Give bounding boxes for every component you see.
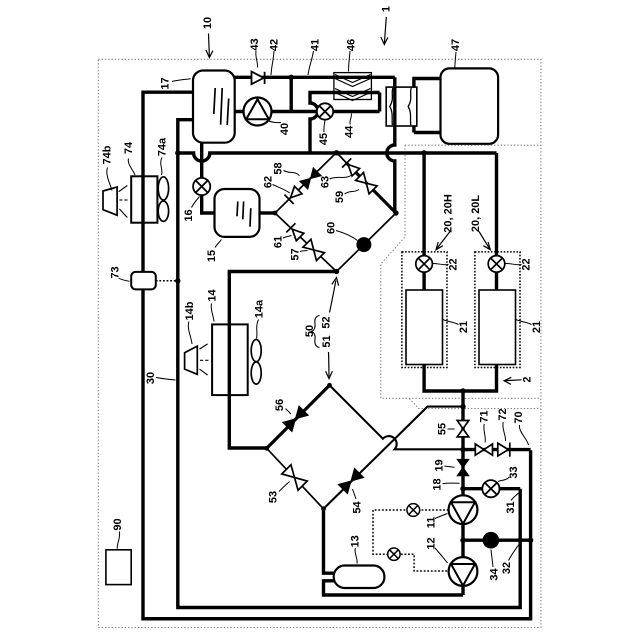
branch pipe from 43-line down to pump line bbox=[290, 77, 293, 111]
svg-text:90: 90 bbox=[112, 518, 124, 530]
arrow for label 20,20L bbox=[479, 232, 490, 250]
expansion valve 58 (closed) bbox=[300, 168, 321, 189]
wave symbols inside HX46 bbox=[335, 75, 371, 101]
svg-text:74b: 74b bbox=[101, 145, 113, 164]
svg-text:22: 22 bbox=[520, 258, 532, 270]
water valve 16 (circle-x) bbox=[193, 178, 210, 195]
valve 33 branch line bbox=[463, 487, 520, 490]
pipe diamond-2 bottom vertex down into tank 13 top port bbox=[324, 509, 335, 573]
valve 71 / 72 branch line bbox=[463, 448, 531, 451]
coolant tank 17 bbox=[193, 71, 235, 143]
leader 21 right bbox=[516, 320, 532, 325]
pipe from tank 17 upper-left port down the left side, bottom run and right riser bbox=[143, 92, 531, 619]
main liquid line from junction at 17 leg to battery branch with dip bump bbox=[178, 153, 497, 161]
svg-text:40: 40 bbox=[279, 123, 291, 135]
svg-text:72: 72 bbox=[497, 408, 509, 420]
check valve 63 bbox=[342, 158, 360, 176]
expansion valve 56 (closed) bbox=[283, 406, 308, 431]
leader 90 bbox=[117, 532, 119, 549]
node: lower arm junction bbox=[460, 404, 465, 409]
svg-text:43: 43 bbox=[249, 38, 261, 50]
svg-text:30: 30 bbox=[145, 372, 157, 384]
leader 34 bbox=[491, 550, 493, 568]
node: diamond-2 bottom vertex bbox=[321, 506, 326, 511]
svg-text:56: 56 bbox=[274, 399, 286, 411]
svg-text:14a: 14a bbox=[253, 299, 265, 318]
brace for label 50 bbox=[312, 316, 320, 348]
node: diamond-1 bottom vertex bbox=[334, 269, 339, 274]
diamond-1 bottom-left edge (valves 61,57) bbox=[275, 213, 337, 272]
air flow marks 14b to 14 bbox=[200, 344, 209, 375]
leader 33 bbox=[498, 477, 510, 482]
svg-text:20, 20L: 20, 20L bbox=[470, 195, 482, 233]
pipe from tank 17 through check valve 43 and HX46 top bbox=[235, 76, 395, 79]
arrow for label 10 bbox=[206, 34, 213, 58]
leader 18 bbox=[443, 482, 460, 485]
svg-text:54: 54 bbox=[351, 501, 363, 514]
svg-text:18: 18 bbox=[431, 478, 443, 490]
leader 42 bbox=[271, 51, 274, 75]
leader 74a bbox=[161, 158, 162, 176]
leader 56 bbox=[286, 409, 292, 415]
leader 21 left bbox=[443, 320, 459, 325]
control unit 90 bbox=[106, 550, 131, 585]
leader 58 bbox=[284, 171, 300, 176]
leader 41 bbox=[308, 51, 314, 75]
valve 55 (open) bbox=[457, 421, 469, 437]
sensor (circle-x) on pump 12 bypass bbox=[388, 548, 400, 560]
arrow for label 20,20H bbox=[436, 232, 450, 250]
node: 43-line branch bbox=[289, 75, 294, 80]
battery region 2 boundary (stair-step) bbox=[381, 145, 541, 398]
pump 40 outlet pipe through valve 45 to HX46 return bbox=[235, 110, 380, 113]
leader 73 bbox=[119, 278, 130, 281]
svg-text:52: 52 bbox=[320, 316, 332, 328]
joint 34 line bbox=[463, 539, 531, 542]
diamond-2 bottom-left edge (valve 53) bbox=[267, 448, 324, 509]
node: diamond-1 left vertex bbox=[273, 211, 278, 216]
lower unit region boundary bbox=[409, 399, 541, 409]
radiator 74 body bbox=[131, 176, 157, 222]
leader 62 bbox=[273, 185, 290, 194]
svg-text:13: 13 bbox=[350, 535, 362, 547]
battery cooling valve 22 left (circle-x) bbox=[416, 256, 433, 273]
leader 61 bbox=[283, 236, 292, 239]
node: riser junction at 33 return bbox=[518, 538, 523, 543]
HX46 lower pipe to vertical with crossover bump bbox=[310, 93, 380, 154]
check valve 72 bbox=[498, 443, 510, 457]
leader 17 bbox=[172, 79, 191, 82]
leader 54 bbox=[353, 489, 357, 499]
pipe tank 13 bottom port to pump 12 bbox=[324, 581, 464, 595]
pump 11 bbox=[449, 495, 478, 524]
leader 15 bbox=[215, 240, 222, 248]
leader 72 bbox=[503, 422, 506, 441]
level marks inside chiller 15 bbox=[237, 202, 251, 227]
svg-text:45: 45 bbox=[318, 133, 330, 145]
diamond-1 top-left edge (valves 58,62) bbox=[275, 153, 337, 214]
joint 34 (black circle) bbox=[483, 532, 500, 549]
check valve 61 bbox=[286, 223, 304, 241]
fan 74a blades bbox=[158, 177, 168, 222]
dotted link from 73 to pipe bbox=[156, 280, 178, 282]
dotted box around battery module 20,20L bbox=[475, 252, 520, 368]
reservoir tank 13 bbox=[334, 566, 385, 589]
node: battery feed branch bbox=[421, 150, 426, 155]
svg-text:73: 73 bbox=[109, 266, 121, 278]
svg-text:59: 59 bbox=[334, 191, 346, 203]
expansion valve 59 (open) bbox=[356, 173, 377, 194]
svg-text:32: 32 bbox=[501, 562, 513, 574]
leader 46 bbox=[349, 51, 351, 72]
node: diamond-1 top vertex bbox=[334, 150, 339, 155]
svg-text:15: 15 bbox=[206, 250, 218, 262]
svg-text:17: 17 bbox=[159, 77, 171, 89]
node: diamond-2 left vertex bbox=[264, 446, 269, 451]
node: liquid line start at left leg bbox=[175, 150, 180, 155]
svg-text:74: 74 bbox=[123, 141, 135, 154]
wave symbols inside HX44 bbox=[390, 88, 411, 125]
svg-text:31: 31 bbox=[505, 501, 517, 513]
diamond-2 lower arm through valve 54 to junction bbox=[324, 407, 464, 509]
leader 22 right bbox=[505, 263, 522, 264]
leader 30 bbox=[156, 378, 176, 381]
leader 22 left bbox=[432, 263, 449, 264]
valve 71 (open) bbox=[475, 444, 492, 455]
pipe tank 17 bottom port through valve 16 to evaporator 15 bbox=[202, 143, 215, 213]
leader 12 bbox=[435, 548, 448, 563]
leader 40 bbox=[268, 121, 282, 123]
svg-text:34: 34 bbox=[489, 568, 501, 581]
leader 31 bbox=[511, 493, 519, 501]
leader 14 bbox=[211, 304, 214, 322]
svg-text:53: 53 bbox=[267, 491, 279, 503]
svg-text:14b: 14b bbox=[184, 301, 196, 320]
pipe HX46 return drop to valve 45 line bbox=[378, 93, 381, 112]
water-refrigerant heat exchanger 44 body bbox=[386, 87, 417, 126]
arrow for label 2 bbox=[504, 377, 521, 384]
HX44 top port pipe to battery 47 bbox=[414, 79, 441, 88]
fan 14a blades bbox=[251, 340, 261, 385]
svg-text:61: 61 bbox=[272, 236, 284, 248]
receiver 60 (black circle) bbox=[356, 237, 371, 252]
HX44 bottom port pipe to battery 47 bbox=[414, 126, 441, 133]
leader 70 bbox=[519, 425, 528, 445]
svg-text:55: 55 bbox=[436, 423, 448, 435]
leader 14a bbox=[257, 320, 259, 339]
svg-text:46: 46 bbox=[345, 39, 357, 51]
svg-text:70: 70 bbox=[513, 411, 525, 423]
dotted sensor bypass lines near pumps 11,12 bbox=[373, 510, 449, 571]
svg-text:57: 57 bbox=[289, 248, 301, 260]
leader 55 bbox=[448, 428, 455, 430]
left battery feed pipe down through valve 22 and module 21 bbox=[424, 153, 496, 391]
leader 63 bbox=[330, 176, 352, 180]
svg-text:2: 2 bbox=[521, 376, 533, 382]
battery return junction down to valve 55 line bbox=[461, 391, 464, 595]
node: pump 11 outlet junction bbox=[460, 538, 465, 543]
air flow marks 74b to 74 bbox=[119, 186, 128, 218]
leader 47 bbox=[455, 52, 456, 68]
thick portion of diamond-1 top-right edge bbox=[346, 163, 396, 214]
diamond-2 top-left edge (valve 56) bbox=[267, 385, 330, 448]
water valve 45 (circle-x) bbox=[317, 103, 333, 119]
battery cell stack 21 left bbox=[406, 290, 443, 365]
svg-text:33: 33 bbox=[508, 466, 520, 478]
check valve 43 bbox=[252, 72, 265, 85]
expansion valve 53 (open) bbox=[282, 465, 307, 490]
sensor (circle-x) on pump 11 bypass bbox=[407, 504, 420, 517]
heat exchanger 46 body bbox=[334, 73, 372, 100]
battery cooling valve 22 right (circle-x) bbox=[488, 256, 505, 273]
svg-text:71: 71 bbox=[478, 410, 490, 422]
evaporator 14 body bbox=[212, 324, 248, 395]
pipe down from 46-top line through HX44 with crossover bump to diamond-1 right vertex bbox=[387, 77, 395, 213]
leader 74 bbox=[128, 159, 135, 176]
battery 47 bbox=[441, 68, 499, 143]
diamond-1 top-right edge thin part (valve 63) bbox=[337, 153, 347, 163]
svg-text:14: 14 bbox=[206, 289, 218, 302]
node: dotted link on left leg bbox=[175, 278, 180, 283]
svg-text:63: 63 bbox=[319, 176, 331, 188]
leader 60 bbox=[336, 231, 358, 241]
svg-text:44: 44 bbox=[344, 125, 356, 138]
svg-text:10: 10 bbox=[202, 17, 214, 29]
leader 45 bbox=[324, 121, 325, 133]
pump 40 bbox=[244, 98, 272, 126]
leader 44 bbox=[350, 114, 352, 125]
arrow for label 51 bbox=[326, 352, 333, 379]
partition border below battery region 47 area bbox=[405, 144, 541, 146]
blower cone 14b bbox=[185, 346, 198, 374]
svg-text:47: 47 bbox=[450, 39, 462, 51]
svg-text:62: 62 bbox=[262, 176, 274, 188]
pipe from tank 17 lower-left port down inner-left side, bottom run and inner right riser bbox=[178, 120, 520, 608]
svg-text:1: 1 bbox=[380, 6, 392, 12]
chiller 15 bbox=[215, 189, 260, 237]
svg-text:51: 51 bbox=[321, 335, 333, 347]
node: diamond-1 right vertex bbox=[393, 210, 398, 215]
blower cone 74b bbox=[103, 187, 117, 215]
svg-text:19: 19 bbox=[433, 459, 445, 471]
node: diamond-2 top vertex bbox=[327, 383, 332, 388]
leader 57 bbox=[300, 251, 308, 252]
svg-text:58: 58 bbox=[272, 162, 284, 174]
leader 43 bbox=[256, 51, 258, 68]
pipe diamond-1 bottom vertex to evaporator 14 down to diamond-2 left vertex bbox=[229, 272, 336, 449]
svg-text:41: 41 bbox=[309, 39, 321, 51]
pump 12 bbox=[449, 557, 478, 586]
leader 11 bbox=[435, 514, 448, 519]
svg-text:20, 20H: 20, 20H bbox=[442, 194, 454, 233]
svg-text:21: 21 bbox=[531, 321, 543, 333]
dotted box around battery module 20,20H bbox=[402, 252, 447, 368]
leader 74b bbox=[107, 168, 112, 191]
svg-text:74a: 74a bbox=[156, 137, 168, 156]
svg-text:60: 60 bbox=[326, 222, 338, 234]
node: battery return junction bbox=[460, 388, 465, 393]
svg-text:22: 22 bbox=[447, 258, 459, 270]
level marks inside tank 17 bbox=[214, 88, 229, 125]
expansion valve 54 (closed) bbox=[338, 468, 363, 493]
diamond-1 bottom-right edge (receiver 60) bbox=[337, 213, 397, 272]
leader 32 bbox=[509, 544, 520, 561]
leader 71 bbox=[484, 424, 486, 443]
leader 13 bbox=[355, 548, 357, 564]
battery cell stack 21 right bbox=[479, 290, 516, 365]
expansion valve 57 (open) bbox=[303, 239, 324, 260]
valve 33 (circle-x) bbox=[482, 480, 499, 497]
arrow for label 52 bbox=[330, 278, 339, 313]
check valve 62 bbox=[284, 185, 302, 203]
leader 16 bbox=[192, 197, 200, 208]
leader 59 bbox=[345, 190, 360, 195]
diamond-2 upper arm with crossover bump to valve 71 line bbox=[330, 385, 464, 449]
leader 53 bbox=[279, 482, 290, 492]
leader 14b bbox=[188, 322, 192, 345]
svg-text:21: 21 bbox=[458, 321, 470, 333]
outer phantom border (vehicle boundary 10) bbox=[98, 59, 541, 627]
arrow for label 1 bbox=[381, 17, 388, 45]
valve 19 (closed) bbox=[457, 459, 469, 475]
svg-text:42: 42 bbox=[268, 39, 280, 51]
leader 19 bbox=[445, 466, 455, 467]
svg-text:12: 12 bbox=[425, 537, 437, 549]
node: valve 71 branch junction bbox=[460, 447, 465, 452]
component 73 body bbox=[131, 272, 156, 290]
svg-text:16: 16 bbox=[183, 209, 195, 221]
pipe evaporator 15 to diamond-1 left vertex bbox=[260, 211, 276, 214]
node: outer riser junction bbox=[528, 538, 533, 543]
svg-text:50: 50 bbox=[304, 325, 316, 337]
node: valve 33 branch junction bbox=[460, 486, 465, 491]
